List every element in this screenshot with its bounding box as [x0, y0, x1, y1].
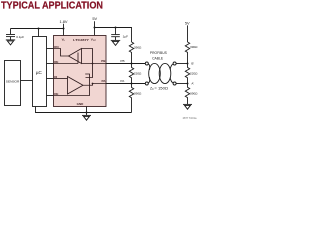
wire GND stub — [86, 107, 88, 116]
capacitor C2 1uF — [111, 28, 120, 41]
ground below U1 — [82, 115, 91, 120]
wire RE — [47, 63, 54, 65]
ground below C1 — [6, 40, 15, 45]
node A' — [187, 83, 189, 85]
uC box — [33, 37, 47, 107]
node junction dot rail-VL — [63, 28, 65, 30]
resistor R2 220 (left chain mid) — [129, 64, 133, 84]
wire RO — [47, 48, 54, 50]
svg-text:390Ω: 390Ω — [190, 91, 198, 95]
SENSOR box — [5, 61, 21, 106]
wire DI — [47, 78, 54, 80]
wire RO inner — [54, 49, 69, 57]
node dot B net — [92, 63, 94, 65]
wire driver output to PA — [83, 84, 106, 86]
capacitor C1 0.1uF — [6, 29, 15, 40]
wire sensor to uC — [21, 80, 33, 82]
resistor R3 390 (left chain bottom) — [129, 84, 133, 113]
wire receiver B input — [82, 49, 93, 64]
resistor R6 390 (right chain bottom) — [185, 84, 189, 105]
svg-text:LTC2877: LTC2877 — [73, 38, 89, 42]
wire bottom rail — [36, 107, 132, 113]
wire right chain top — [187, 25, 189, 42]
svg-text:390Ω: 390Ω — [134, 46, 142, 50]
wire 5V drop to VCC — [94, 21, 96, 35]
svg-text:1µF: 1µF — [123, 35, 129, 39]
wire 5V rail — [95, 28, 132, 43]
wire 1.8V rail — [11, 28, 64, 30]
svg-text:PB: PB — [120, 59, 124, 63]
wire cable A to right chain — [176, 83, 187, 85]
svg-text:µC: µC — [36, 70, 43, 75]
node dot GND-rail — [86, 112, 88, 114]
twisted pair cable — [145, 62, 187, 85]
resistor R5 220 (right chain mid) — [185, 64, 189, 84]
node junction dot 5V rail — [94, 27, 96, 29]
svg-text:5V: 5V — [92, 16, 97, 21]
wire DE inner — [54, 74, 90, 96]
driver amp (inside U1) — [54, 74, 107, 96]
wire PA out — [106, 83, 145, 85]
svg-text:390Ω: 390Ω — [134, 92, 142, 96]
node dot PB-chain — [131, 63, 133, 65]
ground right chain — [183, 104, 192, 109]
receiver amp (inside U1) — [54, 49, 107, 78]
svg-text:220Ω: 220Ω — [134, 72, 142, 76]
svg-text:2877 TA01a: 2877 TA01a — [183, 116, 197, 120]
wire DE — [47, 95, 54, 97]
node junction dot rail-uC — [38, 28, 40, 30]
ground below C2 — [111, 40, 120, 45]
wire PB net — [82, 63, 107, 65]
svg-text:CABLE: CABLE — [152, 57, 164, 61]
op-amp / transceiver U1 LTC2877 box — [54, 36, 107, 107]
wire uC supply drop — [38, 29, 40, 37]
svg-text:PROFIBUS: PROFIBUS — [150, 51, 168, 55]
svg-text:0.1µF: 0.1µF — [16, 35, 24, 39]
wire 1.8V drop to VL — [63, 24, 65, 36]
resistor R1 390 (left chain top) — [129, 42, 133, 64]
wire driver B tap — [86, 64, 93, 78]
svg-text:SENSOR: SENSOR — [6, 79, 20, 83]
node dot PA-chain — [131, 83, 133, 85]
svg-text:5V: 5V — [185, 21, 190, 26]
svg-text:220Ω: 220Ω — [190, 72, 198, 76]
svg-text:PA: PA — [120, 79, 125, 83]
wire cable B to right chain — [176, 63, 187, 65]
resistor R4 390 (right chain top) — [185, 42, 189, 64]
wire PB out — [106, 63, 145, 65]
node dot A net — [92, 83, 94, 85]
wire RE inner with stub — [54, 53, 79, 64]
wire DI inner — [54, 78, 68, 80]
svg-text:TYPICAL APPLICATION: TYPICAL APPLICATION — [1, 0, 103, 11]
node B' — [187, 63, 189, 65]
svg-text:B': B' — [191, 61, 194, 65]
svg-text:390Ω: 390Ω — [190, 45, 198, 49]
svg-text:GND: GND — [77, 102, 85, 106]
svg-text:= 150Ω: = 150Ω — [154, 86, 168, 90]
svg-text:1.8V: 1.8V — [59, 19, 67, 24]
svg-text:A': A' — [191, 81, 194, 85]
